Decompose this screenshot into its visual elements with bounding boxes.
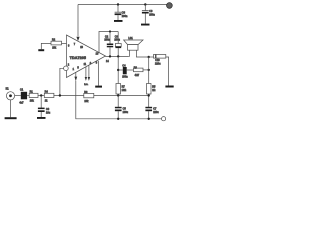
capacitor C3 electrolytic [117,32,119,44]
svg-text:4u7: 4u7 [19,102,24,105]
svg-text:11: 11 [84,63,87,66]
node on rail x118 [117,3,119,5]
svg-text:10k: 10k [30,100,35,103]
svg-text:8: 8 [96,62,98,65]
wire K1 to C1 [15,95,21,97]
capacitor C7 [145,107,152,109]
svg-text:100u: 100u [123,111,129,114]
svg-text:7: 7 [74,43,76,46]
ground (pin 8) [95,86,102,88]
capacitor C10 series [154,55,166,59]
input connector K1 [6,92,14,100]
wire speaker return down [148,57,150,84]
wire bubble to feedback node [60,68,64,95]
wire R5 to C7 [148,94,150,107]
node output/C3 [117,55,119,57]
node rail/C5 [117,118,119,120]
resistor R1 [29,93,38,97]
wire rail to C8 [117,5,119,13]
svg-text:100n: 100n [122,15,128,18]
node J4 [148,94,150,96]
svg-text:100n: 100n [122,75,128,78]
svg-text:K1: K1 [6,88,10,91]
wire K1 shield down [10,100,12,117]
wire output from apex [106,55,129,57]
ground below C9 [141,24,150,26]
ground (K1) [5,117,17,119]
loudspeaker LS1 [124,40,143,45]
resistor R3 zobel [134,68,144,72]
svg-text:LS1: LS1 [128,37,133,40]
IC ground pin arrow [75,72,77,77]
capacitor C9 [142,10,149,12]
node J1 [40,94,42,96]
svg-text:100n: 100n [149,14,155,17]
ground below C6 [37,117,46,119]
capacitor C2 [109,32,111,44]
resistor R2 [51,41,62,45]
svg-text:TDA7205: TDA7205 [70,56,86,60]
ground below C8 [114,20,123,22]
svg-text:10k: 10k [52,46,57,49]
node J3 [117,94,119,96]
resistor R7 [116,84,121,95]
svg-text:C4: C4 [122,64,126,67]
wire R2 to pin 3 [62,42,67,44]
wire speaker right terminal [136,50,148,57]
capacitor C6 [40,96,42,109]
svg-text:14: 14 [106,60,109,63]
svg-text:10k: 10k [84,100,89,103]
capacitor C8 [115,11,122,13]
wire supply rail top [78,4,169,6]
svg-text:2: 2 [68,63,70,66]
svg-text:220u: 220u [153,111,159,114]
svg-text:10u: 10u [46,111,51,114]
wire pin13 up and over to bootstrap caps [99,32,118,53]
svg-text:5: 5 [77,67,79,70]
wire R3 to speaker return [143,69,149,71]
wire speaker left terminal [128,50,131,56]
supply arrow into IC [76,37,79,41]
wire speaker top to load [149,56,154,58]
wire IC pin 8 to ground [98,61,100,86]
wire bias ground to R2 [41,43,51,49]
wire output down to zobel/feedback [117,56,119,83]
capacitor C1 [21,92,27,100]
svg-text:1k: 1k [45,100,48,103]
ground (right) [165,86,173,88]
node speaker return / zobel [148,69,150,71]
svg-text:3: 3 [68,45,70,48]
wire Vcc drop to IC [77,5,79,37]
resistor R6 feedback [84,93,94,97]
svg-text:100n: 100n [104,39,110,42]
wire rail to C9 [144,5,146,11]
svg-text:C1: C1 [20,88,24,91]
svg-text:10: 10 [80,46,83,49]
svg-text:100u: 100u [114,39,120,42]
node zobel tap [117,69,119,71]
terminal ground [162,117,166,121]
n.c. pin arrows [85,67,87,78]
node on rail x145 [144,3,146,5]
svg-text:n.c.: n.c. [84,83,88,86]
capacitor C5 [117,96,119,108]
svg-text:1: 1 [73,68,75,71]
svg-text:13: 13 [96,52,99,55]
wire R7 to J3 [117,94,119,96]
wire R6 to C5/C7 [94,95,149,97]
resistor R5 [147,84,152,95]
wire C1 to R1 [27,95,29,97]
op-amp U1 TDA720x triangle [67,35,106,78]
svg-text:10Ω: 10Ω [122,89,127,92]
wire C10 to ground [166,57,169,86]
inverting input bubble pin 2 [64,66,69,71]
node output/C2 [109,55,111,57]
ground (input bias) [38,49,44,51]
node rail/C7 [148,118,150,120]
wire R1 to node [38,95,44,97]
node J2 [59,94,61,96]
svg-text:1Ω: 1Ω [152,89,155,92]
node speaker return top [148,56,150,58]
node top of C2 [109,30,111,32]
terminal +supply [167,3,173,9]
wire R4 to feedback node [54,95,84,97]
capacitor C4 zobel [118,69,123,71]
svg-text:220u: 220u [155,62,161,65]
svg-text:4Ω7: 4Ω7 [135,74,140,77]
wire IC ground to bottom rail [76,81,164,119]
resistor R4 [44,93,54,97]
